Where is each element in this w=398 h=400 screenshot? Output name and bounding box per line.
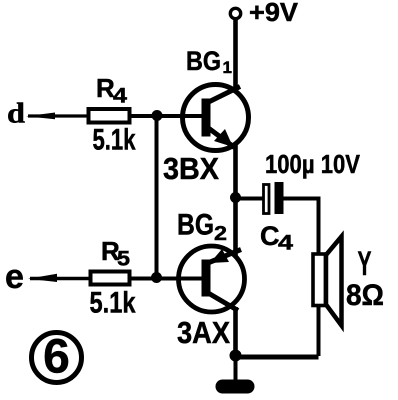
wire R4 to BG1 base <box>130 114 203 118</box>
svg-text:8Ω: 8Ω <box>346 279 384 312</box>
node output junction <box>230 192 241 203</box>
wire to ground <box>234 355 238 381</box>
svg-text:4: 4 <box>113 85 127 108</box>
figure number circled 6 <box>32 333 82 383</box>
transistor BG1 emitter arrow <box>214 129 233 147</box>
transistor BG2 emitter lead <box>209 250 241 263</box>
wire output node to BG2 emitter <box>233 198 238 257</box>
svg-text:3BX: 3BX <box>163 151 219 186</box>
svg-text:C: C <box>260 221 280 251</box>
node junction R5 <box>151 272 162 283</box>
power terminal +9V circle <box>230 8 240 18</box>
wire input d to R4 <box>28 114 89 117</box>
transistor BG2 collector lead <box>209 294 238 311</box>
wire +9V to BG1 collector <box>233 19 238 90</box>
speaker Y body <box>313 254 326 306</box>
transistor BG2 circle <box>179 246 245 312</box>
transistor BG2 emitter arrow <box>210 249 229 263</box>
wire output node to C4 <box>236 197 264 201</box>
wire R5 to BG2 base <box>130 277 203 281</box>
transistor BG2 base bar <box>202 260 211 297</box>
wire speaker to bottom wire <box>317 306 321 356</box>
wire vertical between junctions <box>155 116 159 278</box>
transistor BG1 circle <box>183 85 249 151</box>
capacitor C4 positive plate <box>264 185 270 214</box>
svg-text:6: 6 <box>43 331 70 384</box>
wire C4 to speaker <box>284 199 319 254</box>
svg-text:1: 1 <box>223 58 232 77</box>
svg-text:3AX: 3AX <box>177 315 230 350</box>
wire input e to R5 <box>30 277 91 280</box>
resistor R5 body <box>91 272 130 285</box>
svg-text:2: 2 <box>214 223 227 245</box>
resistor R4 body <box>89 109 130 123</box>
capacitor C4 negative plate <box>275 182 284 214</box>
input d arrow <box>26 113 55 120</box>
svg-text:BG: BG <box>177 209 214 242</box>
svg-text:4: 4 <box>278 232 293 255</box>
svg-text:d: d <box>7 98 25 130</box>
svg-text:5: 5 <box>117 248 130 271</box>
transistor BG1 emitter lead <box>207 127 235 148</box>
node bottom junction <box>230 350 242 362</box>
wire BG1 emitter to output node <box>233 145 238 198</box>
wire bottom horizontal <box>236 355 319 360</box>
input e arrow <box>28 274 57 282</box>
wire BG2 collector to bottom node <box>233 307 238 356</box>
svg-text:+9V: +9V <box>249 0 299 27</box>
svg-text:5.1k: 5.1k <box>93 124 136 157</box>
speaker Y cone <box>326 237 342 326</box>
svg-text:Y: Y <box>358 245 372 283</box>
svg-text:BG: BG <box>186 46 221 76</box>
transistor BG1 base bar <box>202 99 211 137</box>
node junction R4 <box>152 110 163 121</box>
svg-text:5.1k: 5.1k <box>90 287 136 320</box>
transistor BG1 collector lead <box>207 87 241 104</box>
svg-text:e: e <box>5 258 24 296</box>
svg-text:100µ 10V: 100µ 10V <box>265 149 361 179</box>
ground <box>223 380 248 394</box>
